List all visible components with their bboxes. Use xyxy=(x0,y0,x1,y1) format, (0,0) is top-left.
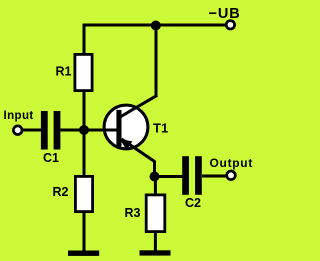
wire R2 to ground xyxy=(83,213,86,252)
svg-text:Input: Input xyxy=(4,110,34,122)
svg-text:R2: R2 xyxy=(53,185,69,199)
wire C2 to output terminal xyxy=(202,175,226,178)
capacitor C2 xyxy=(182,156,202,195)
label R1 xyxy=(56,65,72,79)
wire emitter node to C2 xyxy=(155,175,183,178)
svg-text:R1: R1 xyxy=(56,65,72,79)
wire C1 to base xyxy=(60,129,118,132)
terminal Output xyxy=(227,171,236,180)
svg-text:R3: R3 xyxy=(125,206,141,220)
wire collector vertical xyxy=(155,24,158,97)
wire emitter vertical xyxy=(153,161,156,178)
terminal -UB xyxy=(226,21,234,29)
svg-text:C1: C1 xyxy=(43,151,59,165)
wire R1 to R2 xyxy=(83,92,86,175)
wire emitter diagonal xyxy=(122,139,155,162)
label R2 xyxy=(53,185,69,199)
wire top rail xyxy=(84,24,226,27)
resistor R1 xyxy=(75,54,92,90)
node collector rail junction xyxy=(151,21,161,31)
transistor T1 body xyxy=(104,105,148,149)
svg-text:C2: C2 xyxy=(185,196,201,210)
ground R2 xyxy=(68,251,99,256)
label -UB xyxy=(209,6,241,22)
label R3 xyxy=(125,206,141,220)
node emitter junction xyxy=(150,172,160,182)
ground R3 xyxy=(140,250,171,255)
resistor R3 xyxy=(146,195,165,232)
svg-text:−UB: −UB xyxy=(209,6,241,22)
svg-text:Output: Output xyxy=(210,156,254,170)
label C1 xyxy=(43,151,59,165)
transistor T1 base bar xyxy=(116,110,121,147)
terminal Input xyxy=(13,126,22,135)
wire emitter node to R3 xyxy=(154,177,157,194)
resistor R2 xyxy=(75,176,92,211)
wire R1 to rail xyxy=(83,24,86,54)
svg-text:T1: T1 xyxy=(153,121,168,136)
label C2 xyxy=(185,196,201,210)
wire R3 to ground xyxy=(154,233,157,252)
wire input terminal to C1 xyxy=(23,129,42,132)
transistor T1 emitter arrow xyxy=(120,139,133,150)
label Input xyxy=(4,110,34,122)
node base junction xyxy=(79,125,89,135)
wire collector diagonal xyxy=(120,95,157,117)
label Output xyxy=(210,156,254,170)
label T1 xyxy=(153,121,168,136)
capacitor C1 xyxy=(41,111,60,150)
